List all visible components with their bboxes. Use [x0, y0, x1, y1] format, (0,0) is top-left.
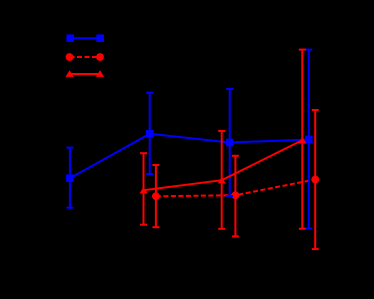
- legend circle marker left: [66, 53, 74, 61]
- error bar circle point 1: [155, 165, 157, 227]
- error bar triangle point 3: [301, 50, 303, 229]
- triangle marker 3: [298, 137, 306, 144]
- circle marker 1: [152, 192, 160, 200]
- series: blue squares (drawn second): [66, 50, 312, 229]
- red dashed data line: [156, 180, 315, 197]
- error bar blue point 1: [69, 148, 71, 208]
- red solid data line: [144, 140, 303, 190]
- square marker 4: [305, 136, 313, 144]
- legend square marker right: [96, 34, 104, 42]
- square marker 2: [146, 130, 154, 138]
- circle markers: [152, 176, 319, 201]
- legend square marker left: [66, 34, 74, 42]
- error bar blue point 2: [149, 93, 151, 174]
- legend blue line: [70, 37, 100, 39]
- triangle markers: [140, 137, 307, 194]
- error bar blue point 4: [308, 50, 310, 229]
- square marker 1: [66, 174, 74, 182]
- circle marker 3: [311, 176, 319, 184]
- legend entry 2: red dashed line with circle markers: [66, 53, 104, 61]
- legend red solid line: [70, 73, 100, 75]
- error bar circle point 2: [234, 156, 236, 237]
- series: red solid triangles (drawn last): [140, 50, 306, 229]
- blue data line: [70, 134, 309, 178]
- error bar blue point 3: [229, 89, 231, 196]
- triangle marker 1: [140, 187, 148, 194]
- triangle marker 2: [218, 177, 226, 184]
- legend entry 3: red solid line with triangle markers: [66, 70, 105, 77]
- legend entry 1: blue solid line with square markers: [66, 34, 104, 42]
- legend red dashed line: [70, 56, 101, 58]
- legend triangle marker left: [66, 70, 74, 77]
- square markers: [66, 130, 313, 182]
- series: red dashed circles (drawn first): [152, 110, 318, 249]
- legend triangle marker right: [96, 70, 104, 77]
- error bar triangle point 2: [221, 131, 223, 229]
- square marker 3: [226, 139, 234, 147]
- error bar triangle point 1: [143, 153, 145, 225]
- error bar circle point 3: [314, 110, 316, 249]
- circle marker 2: [232, 191, 240, 199]
- legend circle marker right: [96, 53, 104, 61]
